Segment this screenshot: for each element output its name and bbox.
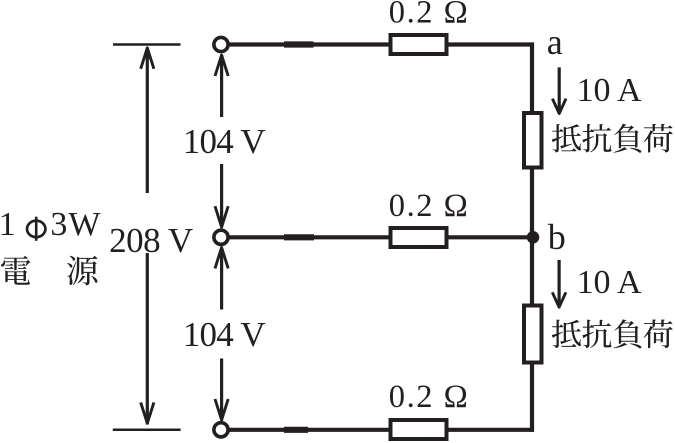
current arrow 10 A upper shaft — [558, 67, 561, 112]
terminal circle middle — [214, 230, 228, 244]
source label 1 phi 3W — [0, 206, 101, 243]
svg-text:0.2 Ω: 0.2 Ω — [389, 188, 468, 224]
current arrow 10 A upper head — [552, 99, 566, 114]
svg-text:W: W — [68, 206, 101, 243]
current arrow 10 A lower head — [552, 292, 566, 307]
label teikou fuka (resistive load) upper — [552, 124, 673, 153]
svg-text:208 V: 208 V — [109, 221, 193, 260]
208 V dimension arrow shaft upper — [146, 48, 149, 194]
label teikou fuka (resistive load) lower — [552, 319, 673, 348]
svg-text:3: 3 — [50, 206, 67, 243]
208 V arrowhead down — [141, 402, 154, 423]
wire top line (upper hot conductor) — [229, 42, 534, 46]
104 V upper arrowhead down — [215, 206, 228, 227]
svg-text:0.2 Ω: 0.2 Ω — [389, 0, 468, 31]
104 V lower dimension shaft above text — [220, 248, 223, 310]
104 V lower arrowhead down — [215, 399, 228, 420]
104 V upper dimension shaft below text — [220, 164, 223, 227]
svg-text:a: a — [547, 22, 563, 62]
svg-text:0.2 Ω: 0.2 Ω — [389, 379, 468, 415]
current arrow 10 A lower shaft — [557, 260, 560, 306]
source label dengen (power source) kanji — [1, 256, 97, 286]
resistor 0.2 ohm middle (line resistance) — [391, 228, 447, 247]
208 V dimension arrow shaft lower — [146, 253, 149, 425]
dimension cap top — [113, 43, 181, 46]
load resistor lower (between b and bottom line) — [524, 306, 542, 363]
load resistor upper (between a and b) — [524, 113, 542, 168]
node b junction dot — [527, 231, 540, 244]
104 V lower arrowhead up — [215, 248, 228, 269]
dimension cap bottom — [113, 429, 181, 432]
svg-text:b: b — [548, 217, 566, 257]
svg-text:104 V: 104 V — [183, 122, 266, 161]
svg-text:1: 1 — [0, 206, 16, 243]
svg-text:104 V: 104 V — [183, 315, 266, 354]
svg-text:10 A: 10 A — [577, 72, 642, 109]
wire bottom line (lower hot conductor) — [229, 428, 534, 432]
104 V lower dimension shaft below text — [220, 359, 223, 421]
wire top line thick segment — [284, 41, 314, 47]
104 V upper arrowhead up — [215, 55, 228, 76]
resistor 0.2 ohm bottom (line resistance) — [391, 420, 447, 439]
terminal circle bottom — [214, 423, 228, 437]
resistor 0.2 ohm top (line resistance) — [391, 35, 447, 54]
wire middle line (neutral conductor) — [229, 235, 532, 239]
wire bottom line thick segment — [284, 427, 308, 433]
208 V arrowhead up — [141, 48, 154, 69]
wire middle line thick segment — [284, 234, 314, 240]
svg-text:10 A: 10 A — [577, 264, 642, 301]
104 V upper dimension shaft above text — [220, 55, 223, 117]
wire right vertical bus — [530, 43, 534, 432]
terminal circle top — [214, 37, 228, 51]
